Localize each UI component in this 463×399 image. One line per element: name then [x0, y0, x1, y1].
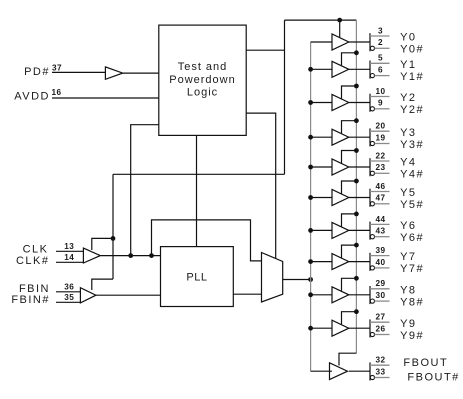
- svg-text:Y5#: Y5#: [400, 199, 424, 211]
- svg-text:43: 43: [376, 227, 386, 236]
- wire Y0 splitter bar: [369, 33, 371, 51]
- wire Y4 buffer input: [311, 166, 332, 168]
- svg-text:Y9#: Y9#: [400, 330, 424, 342]
- wire Y3 buffer output: [349, 136, 370, 138]
- wire Y1 true pin lead: [370, 62, 390, 64]
- svg-text:PD#: PD#: [24, 66, 50, 78]
- svg-text:Y0#: Y0#: [400, 44, 424, 56]
- wire Y5# comp pin lead: [375, 203, 390, 205]
- wire Y6 buffer input: [311, 229, 332, 231]
- junction CLK net / bypass tap: [149, 253, 154, 258]
- wire Y2# comp pin lead: [375, 108, 390, 110]
- buffer Y7 output driver: [332, 254, 349, 270]
- svg-text:13: 13: [64, 242, 74, 251]
- junction clock bus / Y3 tap: [308, 135, 313, 140]
- mux U5 (bypass select): [262, 253, 283, 303]
- svg-text:Y1#: Y1#: [400, 71, 424, 83]
- svg-text:40: 40: [376, 258, 386, 267]
- inverter bubble Y5#: [370, 202, 374, 206]
- wire Y5 true pin lead: [370, 191, 390, 193]
- svg-text:Y9: Y9: [400, 318, 416, 330]
- wire Y2 splitter bar: [369, 94, 371, 112]
- wire Y9# comp pin lead: [375, 334, 390, 336]
- svg-text:Y4#: Y4#: [400, 169, 424, 181]
- buffer U2 (CLK differential input buffer): [83, 248, 100, 263]
- svg-text:37: 37: [52, 63, 62, 72]
- wire FBOUT true pin lead: [370, 364, 390, 366]
- wire Y5 buffer input: [311, 197, 332, 199]
- wire enable into Y2 buffer: [342, 86, 357, 99]
- wire Y0 true pin lead: [370, 35, 390, 37]
- junction enable rail / Y7: [354, 243, 359, 248]
- buffer Y6 output driver: [332, 222, 349, 238]
- wire Y9 true pin lead: [370, 321, 390, 323]
- wire CLK bypass to mux input 0: [152, 220, 262, 261]
- junction clock bus / Y4 tap: [308, 165, 313, 170]
- svg-text:Y8: Y8: [400, 284, 416, 296]
- wire enable into Y1 buffer: [342, 53, 357, 66]
- wire Y8 splitter bar: [369, 286, 371, 304]
- wire Y9 splitter bar: [369, 319, 371, 337]
- inverter bubble Y7#: [370, 266, 374, 270]
- junction enable rail / Y0 drop: [337, 18, 342, 23]
- svg-text:47: 47: [376, 194, 386, 203]
- svg-text:Y0: Y0: [400, 32, 416, 44]
- wire Test box to PLL: [196, 135, 198, 246]
- wire Y6 splitter bar: [369, 222, 371, 240]
- wire enable into Y5 buffer: [342, 181, 357, 194]
- wire FBIN# input: [56, 301, 80, 303]
- svg-text:Y6#: Y6#: [400, 232, 424, 244]
- svg-text:AVDD: AVDD: [14, 90, 50, 102]
- svg-text:Test and: Test and: [178, 61, 228, 73]
- wire Y7 buffer output: [349, 261, 370, 263]
- wire Y2 buffer output: [349, 102, 370, 104]
- svg-text:23: 23: [376, 163, 386, 172]
- svg-text:39: 39: [376, 246, 386, 255]
- wire Y2 true pin lead: [370, 96, 390, 98]
- buffer U1 (PD# input buffer): [105, 67, 122, 79]
- wire FBIN buffer output to PLL: [96, 294, 161, 296]
- svg-text:9: 9: [378, 99, 383, 108]
- wire Y0# comp pin lead: [375, 47, 390, 49]
- wire PD# buffer output to Test box: [123, 72, 159, 74]
- wire enable drop to Y0 buffer: [339, 20, 341, 37]
- wire Y3# comp pin lead: [375, 143, 390, 145]
- svg-text:FBOUT#: FBOUT#: [407, 371, 459, 383]
- wire enable into Y4 buffer: [342, 151, 357, 164]
- wire Y6 true pin lead: [370, 223, 390, 225]
- junction clock bus / Y6 tap: [308, 228, 313, 233]
- wire mux select from Test box: [246, 113, 276, 258]
- junction enable rail / Y8: [354, 276, 359, 281]
- wire enable vertical to CLK/FBIN buffers: [112, 174, 114, 279]
- svg-text:Y1: Y1: [400, 59, 416, 71]
- wire mux output to clock bus: [283, 279, 311, 281]
- svg-text:Y7#: Y7#: [400, 263, 424, 275]
- wire Y8 buffer input: [311, 294, 332, 296]
- wire enable into Y7 buffer: [342, 245, 357, 258]
- wire Y9 buffer output: [349, 327, 370, 329]
- junction enable rail / Y1: [354, 50, 359, 55]
- wire Y7 true pin lead: [370, 255, 390, 257]
- svg-text:Y5: Y5: [400, 187, 416, 199]
- wire Y6 buffer output: [349, 229, 370, 231]
- wire Y1 splitter bar: [369, 61, 371, 79]
- svg-text:33: 33: [376, 367, 386, 376]
- wire FBIN input: [56, 291, 80, 293]
- wire FBOUT splitter bar: [369, 362, 371, 380]
- junction enable rail / Y5: [354, 179, 359, 184]
- wire CLK input: [56, 250, 83, 252]
- wire Y4 splitter bar: [369, 158, 371, 176]
- inverter bubble FBOUT#: [370, 375, 374, 379]
- wire PD# input: [52, 71, 105, 73]
- wire Y0 buffer input: [311, 41, 332, 43]
- wire CLK# input: [56, 261, 83, 263]
- wire enable into FBOUT buffer: [339, 353, 356, 365]
- svg-text:Powerdown: Powerdown: [169, 74, 235, 86]
- wire Y3 splitter bar: [369, 128, 371, 146]
- inverter bubble Y9#: [370, 332, 374, 336]
- wire PLL output to mux input 1: [233, 293, 261, 295]
- svg-text:Y4: Y4: [400, 157, 416, 169]
- svg-text:35: 35: [64, 293, 74, 302]
- svg-text:46: 46: [376, 182, 386, 191]
- wire enable top rail: [285, 19, 357, 21]
- junction enable rail / Y2: [354, 84, 359, 89]
- buffer Y8 output driver: [332, 287, 349, 303]
- buffer FBOUT output driver: [330, 363, 348, 380]
- svg-text:Y7: Y7: [400, 251, 416, 263]
- svg-text:10: 10: [376, 87, 386, 96]
- svg-text:3: 3: [378, 26, 383, 35]
- inverter bubble Y3#: [370, 141, 374, 145]
- wire Y8 buffer output: [349, 294, 370, 296]
- buffer Y2 output driver: [332, 95, 349, 111]
- wire enable rail vertical: [355, 20, 357, 353]
- junction enable rail / Y4: [354, 148, 359, 153]
- wire enable trunk vertical: [284, 20, 286, 174]
- wire Y7 splitter bar: [369, 253, 371, 271]
- wire Y5 splitter bar: [369, 189, 371, 207]
- wire Y4 true pin lead: [370, 160, 390, 162]
- wire Y4# comp pin lead: [375, 172, 390, 174]
- svg-text:2: 2: [378, 38, 383, 47]
- junction enable rail / Y6: [354, 212, 359, 217]
- wire CLK buffer output to PLL: [100, 255, 160, 257]
- block: PLL U4: [161, 247, 234, 307]
- svg-text:30: 30: [376, 291, 386, 300]
- wire Y7# comp pin lead: [375, 267, 390, 269]
- inverter bubble Y8#: [370, 299, 374, 303]
- svg-text:Y3: Y3: [400, 127, 416, 139]
- svg-text:Y8#: Y8#: [400, 296, 424, 308]
- inverter bubble Y2#: [370, 107, 374, 111]
- svg-text:CLK#: CLK#: [16, 255, 50, 267]
- buffer Y0 output driver: [332, 34, 349, 50]
- wire Y9 buffer input: [311, 327, 332, 329]
- svg-text:PLL: PLL: [186, 272, 207, 284]
- wire FBOUT# comp pin lead: [375, 377, 390, 379]
- svg-text:32: 32: [376, 356, 386, 365]
- svg-text:Y6: Y6: [400, 220, 416, 232]
- buffer Y9 output driver: [332, 320, 349, 336]
- junction clock bus / Y9 tap: [308, 326, 313, 331]
- wire Y5 buffer output: [349, 197, 370, 199]
- svg-text:20: 20: [376, 122, 386, 131]
- svg-text:FBIN#: FBIN#: [11, 294, 50, 306]
- buffer U3 (FBIN differential input buffer): [80, 288, 96, 303]
- svg-text:26: 26: [376, 324, 386, 333]
- wire Y1 buffer output: [349, 68, 370, 70]
- junction clock bus / mux output: [308, 277, 313, 282]
- buffer Y1 output driver: [332, 61, 349, 77]
- svg-text:Y2#: Y2#: [400, 104, 424, 116]
- wire Y7 buffer input: [311, 261, 332, 263]
- wire Y3 buffer input: [311, 136, 332, 138]
- buffer Y3 output driver: [332, 129, 349, 145]
- svg-text:5: 5: [378, 54, 383, 63]
- wire Test box tap to CLK net: [131, 125, 159, 256]
- block: Test and Powerdown Logic: [159, 25, 246, 135]
- svg-text:FBOUT: FBOUT: [403, 357, 448, 369]
- inverter bubble Y1#: [370, 74, 374, 78]
- wire AVDD input: [52, 97, 159, 99]
- buffer Y5 output driver: [332, 190, 349, 206]
- wire enable into Y6 buffer: [342, 214, 357, 227]
- junction CLK net / test tap: [128, 253, 133, 258]
- wire Y1# comp pin lead: [375, 75, 390, 77]
- wire Y1 buffer input: [311, 68, 332, 70]
- junction enable / CLK buffer tap: [111, 236, 116, 241]
- wire enable into Y3 buffer: [342, 121, 357, 134]
- wire Y6# comp pin lead: [375, 236, 390, 238]
- svg-text:Y3#: Y3#: [400, 139, 424, 151]
- buffer Y4 output driver: [332, 159, 349, 175]
- inverter bubble Y0#: [370, 46, 374, 50]
- svg-text:36: 36: [64, 282, 74, 291]
- svg-text:29: 29: [376, 279, 386, 288]
- wire enable into Y9 buffer: [342, 312, 357, 325]
- wire Y2 buffer input: [311, 102, 332, 104]
- wire Y8 true pin lead: [370, 288, 390, 290]
- junction enable rail / Y9: [354, 309, 359, 314]
- wire FBOUT buffer input: [311, 370, 332, 372]
- junction clock bus / Y1 tap: [308, 67, 313, 72]
- wire Test box to enable trunk: [246, 49, 284, 51]
- wire enable to input buffers: [113, 173, 285, 175]
- junction clock bus / Y7 tap: [308, 259, 313, 264]
- wire enable into Y8 buffer: [342, 278, 357, 291]
- junction enable rail / Y3: [354, 118, 359, 123]
- wire enable into CLK buffer: [92, 238, 113, 250]
- svg-text:19: 19: [376, 133, 386, 142]
- inverter bubble Y6#: [370, 235, 374, 239]
- junction clock bus / Y5 tap: [308, 195, 313, 200]
- wire Y3 true pin lead: [370, 130, 390, 132]
- svg-text:44: 44: [376, 215, 386, 224]
- svg-text:14: 14: [64, 253, 74, 262]
- wire FBOUT buffer output: [349, 370, 370, 372]
- junction clock bus / Y8 tap: [308, 292, 313, 297]
- svg-text:22: 22: [376, 151, 386, 160]
- svg-text:CLK: CLK: [23, 244, 49, 256]
- wire Y8# comp pin lead: [375, 300, 390, 302]
- svg-text:6: 6: [378, 66, 383, 75]
- svg-text:16: 16: [52, 88, 62, 97]
- wire clock bus vertical: [310, 42, 312, 371]
- wire Y0 buffer output: [349, 41, 370, 43]
- wire Y4 buffer output: [349, 166, 370, 168]
- svg-text:Y2: Y2: [400, 92, 416, 104]
- svg-text:Logic: Logic: [187, 87, 218, 99]
- inverter bubble Y4#: [370, 171, 374, 175]
- junction clock bus / Y2 tap: [308, 100, 313, 105]
- wire enable into FBIN buffer: [92, 279, 113, 290]
- svg-text:27: 27: [376, 313, 386, 322]
